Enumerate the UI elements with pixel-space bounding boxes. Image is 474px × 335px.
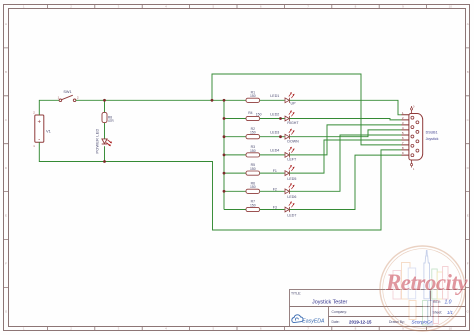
- svg-text:LED5: LED5: [287, 177, 296, 181]
- svg-text:150: 150: [250, 94, 256, 98]
- resistor R8: [102, 112, 114, 123]
- LED LED3: [285, 129, 295, 140]
- wire LED row 3 to DSUB pin: [289, 130, 401, 137]
- LED LED7: [285, 201, 295, 212]
- svg-text:A: A: [5, 22, 7, 26]
- wire resistor to LED row 5: [260, 172, 285, 174]
- LED LED5: [285, 165, 295, 176]
- svg-text:TITLE:: TITLE:: [291, 292, 301, 296]
- svg-text:Joystick Tester: Joystick Tester: [312, 300, 347, 306]
- resistor R1 value 150: [246, 90, 260, 102]
- wire resistor to LED row 3: [260, 136, 285, 138]
- svg-text:10: 10: [449, 327, 453, 331]
- power LED branch wire: [104, 100, 106, 161]
- svg-text:LED7: LED7: [287, 213, 296, 217]
- bottom ground rail: [39, 142, 401, 230]
- junction feed bus top: [223, 99, 226, 102]
- wire LED row 5 to DSUB pin: [289, 140, 401, 173]
- connector DSUB1 body: [409, 113, 423, 160]
- svg-text:DOWN: DOWN: [287, 139, 299, 143]
- title block: [290, 290, 466, 327]
- svg-text:REV:: REV:: [433, 300, 441, 304]
- svg-text:RIGHT: RIGHT: [287, 121, 299, 125]
- left feed bus vertical: [223, 100, 225, 209]
- svg-text:LEFT: LEFT: [287, 158, 297, 162]
- wire LED row 1 to DSUB pin: [289, 100, 401, 115]
- svg-text:F1: F1: [273, 169, 277, 173]
- DSUB1 shell pin 10 (top): [411, 106, 416, 114]
- svg-text:Retrocity: Retrocity: [385, 270, 468, 295]
- svg-text:SW1: SW1: [63, 90, 71, 94]
- +V wire from junction up over to DSUB pin 7: [212, 74, 402, 145]
- DSUB1 pin numbers: [402, 111, 404, 155]
- EasyEDA logo: [292, 315, 325, 325]
- wire bus to resistor R7 row 7: [224, 209, 246, 211]
- svg-text:F2: F2: [273, 187, 277, 191]
- svg-text:LED1: LED1: [270, 94, 279, 98]
- junction bus row 5: [223, 172, 226, 175]
- svg-text:2019-12-15: 2019-12-15: [349, 319, 372, 324]
- wire LED row 7 to DSUB pin: [289, 155, 401, 209]
- svg-text:F: F: [5, 262, 7, 266]
- switch SW1: [58, 90, 79, 102]
- svg-text:Company:: Company:: [332, 310, 348, 314]
- connector DSUB1 pin stubs: [402, 115, 410, 155]
- wire bus to resistor R6 row 6: [224, 190, 246, 192]
- resistor R6 value 150: [246, 181, 260, 193]
- svg-text:B: B: [467, 70, 469, 74]
- wire resistor to LED row 7: [260, 209, 285, 211]
- wire bus to resistor R5 row 5: [224, 172, 246, 174]
- wire resistor to LED row 6: [260, 190, 285, 192]
- svg-text:DSUB1: DSUB1: [426, 130, 438, 134]
- junction bus row 2: [223, 117, 226, 120]
- svg-text:1.0: 1.0: [445, 300, 452, 306]
- svg-text:F: F: [467, 262, 469, 266]
- resistor R5 value 150: [246, 163, 260, 175]
- resistor R2 value 150: [246, 127, 260, 139]
- title block text: [291, 292, 453, 325]
- DSUB1 pin holes: [411, 116, 419, 156]
- svg-text:Joystick: Joystick: [426, 137, 439, 141]
- DSUB1 shell pin 11 (bottom): [411, 160, 416, 171]
- svg-text:UP: UP: [291, 102, 297, 106]
- svg-text:LED3: LED3: [270, 131, 279, 135]
- svg-text:LED2: LED2: [270, 112, 279, 116]
- svg-text:EasyEDA: EasyEDA: [302, 318, 325, 324]
- svg-text:10: 10: [449, 5, 453, 9]
- junction +V riser tap: [211, 99, 214, 102]
- wire resistor to LED row 2: [260, 118, 285, 120]
- watermark Retrocity logo: [380, 246, 465, 331]
- svg-text:A: A: [467, 22, 469, 26]
- junction bus row 4: [223, 154, 226, 157]
- svg-text:150: 150: [256, 112, 262, 116]
- LED LED2: [285, 110, 295, 121]
- node LED2 anode dot: [279, 117, 282, 120]
- junction bus row 6: [223, 190, 226, 193]
- resistor R3 value 150: [246, 145, 260, 157]
- junction power-LED to ground rail: [103, 160, 106, 163]
- wire bus to resistor R3 row 4: [224, 154, 246, 156]
- wire LED row 6 to DSUB pin: [289, 135, 401, 191]
- svg-text:47R: 47R: [108, 119, 115, 123]
- svg-text:F3: F3: [273, 206, 277, 210]
- svg-text:150: 150: [250, 185, 256, 189]
- wire resistor to LED row 1: [260, 99, 285, 101]
- node LED3 anode dot: [279, 135, 282, 138]
- wire battery top to switch: [39, 100, 59, 115]
- wire bus to resistor R4 row 2: [224, 118, 246, 120]
- svg-text:B: B: [5, 70, 7, 74]
- svg-text:POWER LED: POWER LED: [95, 128, 99, 153]
- svg-text:Date:: Date:: [332, 320, 340, 324]
- junction power-LED tap on +V rail: [103, 99, 106, 102]
- LED LED6: [285, 183, 295, 194]
- svg-text:ScorpioGr: ScorpioGr: [412, 320, 433, 325]
- svg-text:LED4: LED4: [270, 149, 279, 153]
- wire LED row 4 to DSUB pin: [289, 125, 401, 155]
- svg-text:1/1: 1/1: [447, 310, 453, 315]
- svg-text:LED6: LED6: [287, 195, 296, 199]
- wire bus to resistor R2 row 3: [224, 136, 246, 138]
- svg-text:E: E: [467, 214, 469, 218]
- wire resistor to LED row 4: [260, 154, 285, 156]
- svg-text:150: 150: [250, 203, 256, 207]
- resistor R4 value 150: [246, 111, 262, 121]
- svg-text:R4: R4: [248, 111, 252, 115]
- junction bus row 3: [223, 135, 226, 138]
- LED LED1: [285, 92, 295, 103]
- svg-text:Drawn By:: Drawn By:: [389, 320, 405, 324]
- LED LED4: [285, 147, 295, 158]
- wire switch to top rail: [76, 99, 224, 101]
- LED power (pointing down): [102, 139, 112, 146]
- svg-text:Sheet:: Sheet:: [433, 310, 443, 314]
- svg-text:150: 150: [250, 167, 256, 171]
- battery V1: [33, 111, 51, 149]
- wire bus to resistor R1 row 1: [224, 99, 246, 101]
- svg-text:150: 150: [250, 149, 256, 153]
- svg-text:E: E: [5, 214, 7, 218]
- svg-text:+: +: [38, 119, 42, 125]
- svg-text:V1: V1: [46, 128, 52, 133]
- resistor R7 value 150: [246, 200, 260, 212]
- wire LED row 2 to DSUB pin: [289, 119, 401, 120]
- svg-text:150: 150: [250, 131, 256, 135]
